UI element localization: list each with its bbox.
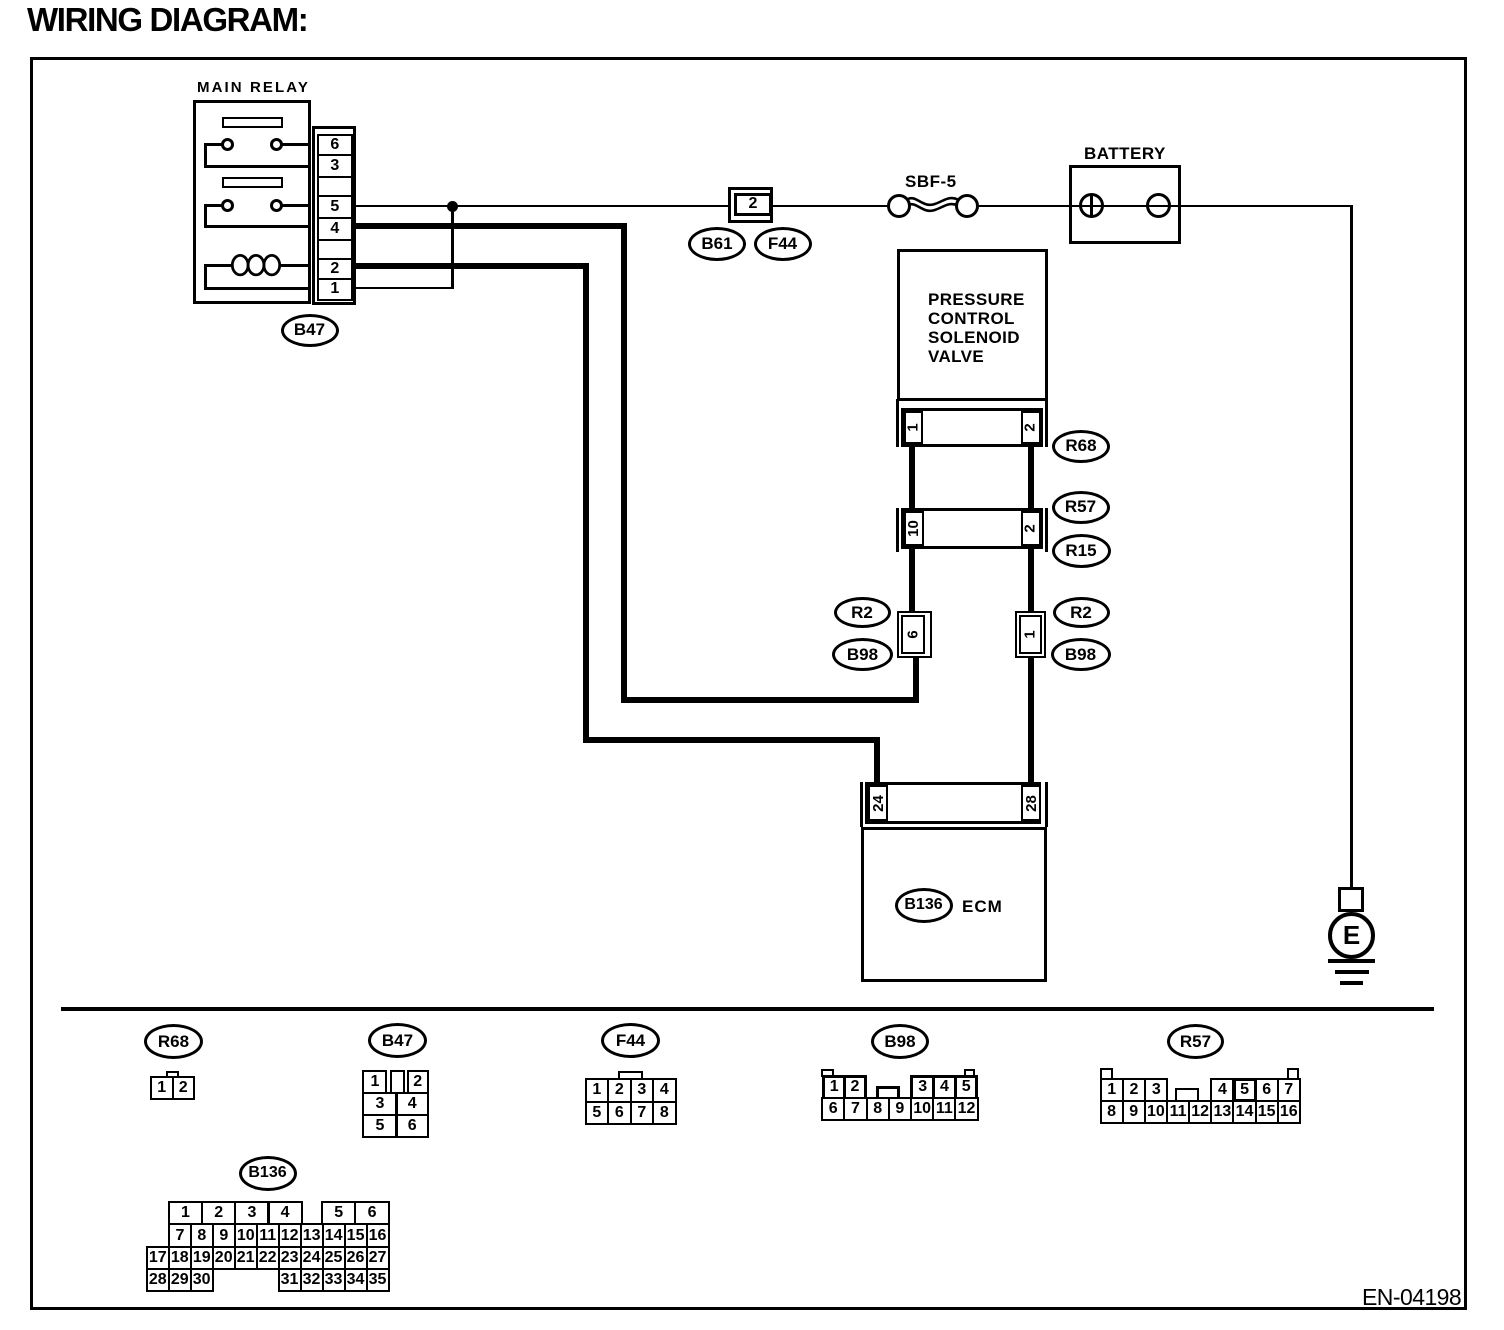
relay contact point 2R xyxy=(270,199,283,212)
valve connector bar R68 xyxy=(901,408,1043,447)
legend R57 pin 13 xyxy=(1210,1100,1234,1124)
legend B98 pin 3 xyxy=(910,1075,935,1100)
wire pin2 horizontal to ECM xyxy=(583,737,880,743)
relay contact point 1L xyxy=(221,138,234,151)
legend F44 pin 1 xyxy=(585,1078,610,1102)
ground circle E xyxy=(1328,912,1375,959)
wire contact2 to pin 5 xyxy=(282,204,310,207)
legend B136 pin 2 xyxy=(201,1201,236,1226)
legend B47 pin 4 xyxy=(396,1092,430,1116)
wire junction drop to pin1 row xyxy=(451,205,454,288)
legend R57 pin 8 xyxy=(1100,1100,1124,1124)
legend separator line xyxy=(61,1007,1434,1011)
ECM pin 24 xyxy=(868,785,888,821)
main relay box outline xyxy=(193,100,311,304)
legend R57 pin 5 xyxy=(1233,1078,1257,1102)
connector label F44 xyxy=(754,227,812,261)
legend B98 pin 1 xyxy=(822,1075,846,1100)
legend R57 pin 11 xyxy=(1166,1100,1190,1124)
wire pin5 to fuse connector (thin power wire) xyxy=(353,205,728,208)
legend R57 tab right xyxy=(1287,1068,1299,1080)
wire B98-1 down to ECM pin28 xyxy=(1028,658,1034,784)
connector label R2 right xyxy=(1053,597,1110,628)
legend B136 pin 6 xyxy=(354,1201,390,1226)
ground bar 3 xyxy=(1340,981,1363,985)
ECM connector bar xyxy=(865,782,1041,824)
legend B47 pin 2 xyxy=(407,1070,430,1094)
legend B136 pin 13 xyxy=(300,1223,324,1247)
wire down into ECM pin24 xyxy=(874,737,880,784)
legend B47 key slot xyxy=(390,1070,405,1094)
legend B136 pin 17 xyxy=(146,1246,170,1270)
battery box xyxy=(1069,165,1181,245)
legend R57 pin 1 xyxy=(1100,1078,1124,1102)
legend B136 pin 8 xyxy=(190,1223,214,1247)
wire pin10 down to B98-6 xyxy=(909,546,915,615)
legend B47 pin 1 xyxy=(362,1070,387,1094)
legend B98 pin 8 xyxy=(866,1097,890,1121)
legend R57 pin 16 xyxy=(1277,1100,1301,1124)
wire pin2 horizontal (thick) xyxy=(353,263,589,269)
legend B136 pin 16 xyxy=(366,1223,390,1247)
relay contact point 1R xyxy=(270,138,283,151)
legend B136 pin 9 xyxy=(212,1223,236,1247)
legend B136 pin 30 xyxy=(190,1268,214,1292)
label BATTERY xyxy=(1084,144,1166,164)
legend B98 pin 11 xyxy=(932,1097,956,1121)
legend R68 tab xyxy=(166,1071,179,1078)
ECM box xyxy=(861,827,1047,982)
wire battery run down to ground xyxy=(1350,205,1353,889)
SBF-5 terminal circle right xyxy=(955,194,979,218)
legend B136 pin 27 xyxy=(366,1246,390,1270)
legend F44 pin 7 xyxy=(630,1101,655,1126)
legend B98 pin 10 xyxy=(910,1097,934,1121)
intermediate connector bracket left xyxy=(896,508,900,552)
legend B136 pin 33 xyxy=(322,1268,346,1292)
relay contact point 2L xyxy=(221,199,234,212)
legend B136 pin 24 xyxy=(300,1246,324,1270)
wire coil right lead to pin 2 xyxy=(281,264,310,267)
wire contact1 to pin 3 xyxy=(204,165,310,168)
legend R57 key bump xyxy=(1175,1088,1199,1100)
ECM pin 28 xyxy=(1021,785,1041,821)
legend F44 pin 2 xyxy=(607,1078,632,1102)
legend R57 pin 7 xyxy=(1277,1078,1301,1102)
legend F44 pin 5 xyxy=(585,1101,610,1126)
legend B98 pin 12 xyxy=(954,1097,978,1121)
valve pin 1 xyxy=(904,411,924,444)
wire pin4 vertical down xyxy=(621,223,627,703)
legend F44 pin 3 xyxy=(630,1078,655,1102)
legend label B47 xyxy=(368,1023,427,1058)
wire pin4 horizontal (thick) xyxy=(353,223,627,229)
legend B136 pin 25 xyxy=(322,1246,346,1270)
relay pin cell 5 xyxy=(317,195,353,219)
relay connector strip outline xyxy=(312,126,356,305)
relay pin cell blank xyxy=(317,176,353,197)
legend label R68 xyxy=(144,1024,203,1059)
wire pin2 vertical down xyxy=(583,263,589,743)
connector label R2 left xyxy=(834,597,891,628)
legend B136 pin 22 xyxy=(256,1246,280,1270)
legend R57 pin 9 xyxy=(1122,1100,1146,1124)
connector label B47 xyxy=(281,314,339,347)
junction dot xyxy=(447,201,458,212)
legend B136 pin 34 xyxy=(344,1268,368,1292)
ECM connector bracket left xyxy=(860,782,863,827)
relay pin cell 1 xyxy=(317,278,353,301)
legend R57 pin 15 xyxy=(1255,1100,1279,1124)
legend B136 pin 29 xyxy=(168,1268,192,1292)
intermediate connector bracket right xyxy=(1045,508,1049,552)
connector label B98 left xyxy=(832,638,893,671)
valve connector bracket left xyxy=(896,399,900,447)
connector label R57 xyxy=(1052,491,1110,524)
SBF-5 terminal circle left xyxy=(887,194,911,218)
legend B136 pin 20 xyxy=(212,1246,236,1270)
legend B136 pin 1 xyxy=(168,1201,203,1226)
ground bar 2 xyxy=(1335,970,1369,974)
legend B98 pin 5 xyxy=(954,1075,979,1100)
legend B98 key bump xyxy=(876,1086,900,1098)
legend B47 pin 3 xyxy=(362,1092,397,1116)
wire contact2 left drop xyxy=(204,204,207,228)
wire up into B98 pin6 xyxy=(913,658,919,703)
title WIRING DIAGRAM xyxy=(27,1,307,39)
document number EN-04198 xyxy=(1362,1284,1461,1311)
legend R57 pin 6 xyxy=(1255,1078,1279,1102)
intermediate pin 2 xyxy=(1021,511,1041,546)
legend B98 pin 2 xyxy=(843,1075,867,1100)
legend B136 pin 11 xyxy=(256,1223,280,1247)
legend B136 pin 18 xyxy=(168,1246,192,1270)
legend B136 pin 14 xyxy=(322,1223,346,1247)
legend B136 pin 32 xyxy=(300,1268,324,1292)
wire contact2 left lead xyxy=(206,204,222,207)
wire valve pin2 down xyxy=(1028,444,1034,511)
label SBF-5 xyxy=(905,172,957,192)
legend B98 pin 6 xyxy=(821,1097,845,1121)
ECM connector bracket right xyxy=(1045,782,1048,827)
legend B136 pin 31 xyxy=(278,1268,302,1292)
legend R68 pin 2 xyxy=(172,1076,196,1100)
connector label B136 xyxy=(895,888,953,923)
battery plus vertical stroke xyxy=(1090,195,1093,217)
legend B136 pin 7 xyxy=(168,1223,192,1247)
label ECM xyxy=(962,897,1003,917)
wire pin2 down to B98-1 xyxy=(1028,546,1034,615)
wire fuse box to SBF-5 xyxy=(773,205,888,208)
wire coil to pin 1 xyxy=(204,287,310,290)
relay contact bar 2 xyxy=(222,177,283,188)
legend R57 pin 10 xyxy=(1144,1100,1168,1124)
legend R57 pin 14 xyxy=(1232,1100,1256,1124)
legend B98 pin 7 xyxy=(843,1097,867,1121)
ground connector square xyxy=(1338,887,1364,912)
wire SBF-5 to battery to ground run xyxy=(979,205,1353,208)
fusible link SBF-5 wavy band xyxy=(906,189,962,223)
legend R68 pin 1 xyxy=(150,1076,174,1100)
wire contact1 left drop xyxy=(204,143,207,168)
label PRESSURE CONTROL SOLENOID VALVE xyxy=(928,290,1025,367)
intermediate pin 10 xyxy=(904,511,924,546)
legend F44 tab xyxy=(618,1071,643,1080)
legend F44 pin 8 xyxy=(652,1101,677,1126)
connector label R15 xyxy=(1052,534,1111,568)
label MAIN RELAY xyxy=(197,79,310,96)
legend B136 pin 28 xyxy=(146,1268,170,1292)
relay coil xyxy=(228,254,284,280)
B98 connector 6 outer xyxy=(897,611,932,658)
legend B136 pin 23 xyxy=(278,1246,302,1270)
valve pin 2 xyxy=(1021,411,1041,444)
B98 connector 1 outer xyxy=(1015,611,1047,658)
relay pin cell 4 xyxy=(317,217,353,241)
relay pin cell 6 xyxy=(317,134,353,156)
B98 pin 1 xyxy=(1019,615,1042,654)
legend B98 pin 4 xyxy=(932,1075,957,1100)
wire coil left drop xyxy=(204,264,207,289)
ground bar 1 xyxy=(1328,959,1375,963)
battery plus terminal xyxy=(1079,193,1104,218)
legend B136 pin 3 xyxy=(234,1201,269,1226)
B98 pin 6 xyxy=(901,615,925,654)
legend label B98 xyxy=(871,1024,929,1059)
relay pin cell blank xyxy=(317,239,353,260)
legend B47 pin 6 xyxy=(396,1114,430,1138)
connector label B98 right xyxy=(1051,638,1111,671)
legend B136 pin 10 xyxy=(234,1223,258,1247)
wire pin1 row xyxy=(353,287,454,290)
legend label R57 xyxy=(1167,1024,1224,1059)
legend B98 tab left xyxy=(821,1069,833,1077)
legend B136 pin 15 xyxy=(344,1223,368,1247)
legend label B136 xyxy=(239,1156,297,1191)
relay pin cell 2 xyxy=(317,258,353,280)
relay contact bar 1 xyxy=(222,117,283,128)
legend F44 pin 4 xyxy=(652,1078,677,1102)
legend B136 pin 19 xyxy=(190,1246,214,1270)
legend label F44 xyxy=(601,1023,660,1058)
legend B136 pin 26 xyxy=(344,1246,368,1270)
legend F44 pin 6 xyxy=(607,1101,632,1126)
intermediate connector bar R57/R15 xyxy=(901,508,1043,549)
legend R57 tab left xyxy=(1100,1068,1112,1080)
wire contact1 left lead xyxy=(206,143,222,146)
legend B136 pin 4 xyxy=(268,1201,303,1226)
valve connector bracket right xyxy=(1045,399,1049,447)
relay pin cell 3 xyxy=(317,154,353,178)
legend B98 tab right xyxy=(964,1069,976,1077)
wire valve pin1 down xyxy=(909,444,915,511)
legend R57 pin 4 xyxy=(1210,1078,1234,1102)
legend B136 pin 5 xyxy=(321,1201,357,1226)
legend R57 pin 12 xyxy=(1188,1100,1212,1124)
legend B136 pin 21 xyxy=(234,1246,258,1270)
connector box outer B61/F44 xyxy=(728,187,773,223)
connector label B61 xyxy=(688,227,746,261)
legend R57 pin 2 xyxy=(1122,1078,1146,1102)
legend B136 pin 35 xyxy=(366,1268,390,1292)
connector label R68 xyxy=(1052,430,1110,463)
legend R57 pin 3 xyxy=(1144,1078,1168,1102)
legend B47 pin 5 xyxy=(362,1114,397,1138)
battery minus terminal xyxy=(1146,193,1171,218)
connector box inner xyxy=(734,193,772,216)
legend B98 pin 9 xyxy=(888,1097,912,1121)
pressure control solenoid valve box xyxy=(897,249,1048,401)
wire contact1 to pin 6 xyxy=(282,143,310,146)
legend B136 pin 12 xyxy=(278,1223,302,1247)
wire coil left lead xyxy=(204,264,232,267)
wire contact2 to pin 4 xyxy=(204,225,310,228)
wire pin4 horizontal to B98-6 xyxy=(621,697,919,703)
